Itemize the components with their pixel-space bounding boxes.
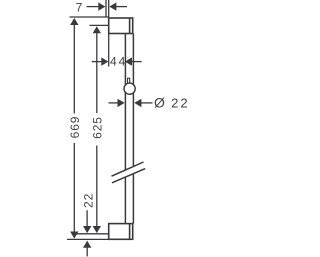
wire tail 7 right (116, 6, 127, 8)
wire tail 44 right (132, 61, 142, 63)
svg-text:22: 22 (82, 193, 96, 208)
extension line 7-right / bracket face / 44 (108, 0, 110, 67)
arrow 44 right (125, 57, 132, 65)
svg-text:7: 7 (76, 1, 83, 15)
bracket bottom inner line (129, 224, 131, 240)
extension line bottom bracket center (76, 233, 108, 235)
wire tail 7 left (87, 6, 99, 8)
arrow 625 bottom (93, 226, 101, 233)
arrows (70, 2, 141, 247)
arrow 669 bottom (70, 232, 78, 239)
dim line 625 upper (96, 33, 98, 114)
bar tube outline (112, 34, 146, 224)
wall bracket bottom (109, 224, 133, 240)
extension line 7-left (105, 0, 107, 17)
arrow 7 left (98, 2, 105, 10)
slider pin (128, 78, 130, 84)
slider knob circle (124, 83, 135, 94)
arrow 7 right (109, 2, 116, 10)
wire tail 44 left (92, 61, 102, 63)
wire tail diameter-22 right (141, 102, 152, 104)
bar left edge upper (124, 34, 126, 170)
bar right edge upper (132, 34, 134, 166)
bar left edge lower (124, 177, 126, 224)
break slash lower (112, 169, 145, 183)
wire tail diameter-22 left (109, 102, 118, 104)
svg-text:669: 669 (68, 116, 82, 139)
arrow 669 top (70, 18, 78, 25)
extension line 625 top (90, 24, 109, 26)
dim stem 22 below (86, 247, 88, 256)
top reference line (70, 16, 109, 18)
bar right edge lower (132, 174, 134, 224)
dim line 22 (86, 210, 88, 226)
arrow diameter-22 right (134, 99, 141, 107)
arrow 44 left (101, 57, 108, 65)
wall bracket top (109, 18, 133, 34)
arrow 22 top (83, 226, 91, 233)
break slash upper (112, 162, 144, 176)
dim line 669 upper (73, 24, 75, 114)
arrow diameter-22 left (118, 99, 125, 107)
arrow 22 bottom (83, 241, 91, 248)
svg-text:Ø 22: Ø 22 (154, 94, 190, 110)
svg-text:625: 625 (91, 116, 105, 139)
bottom reference line (67, 238, 109, 240)
arrow 625 top (93, 26, 101, 33)
bracket top inner line (129, 18, 131, 34)
dim line 669 lower (73, 143, 75, 232)
dim line 625 lower (96, 146, 98, 227)
svg-text:44: 44 (110, 55, 127, 69)
